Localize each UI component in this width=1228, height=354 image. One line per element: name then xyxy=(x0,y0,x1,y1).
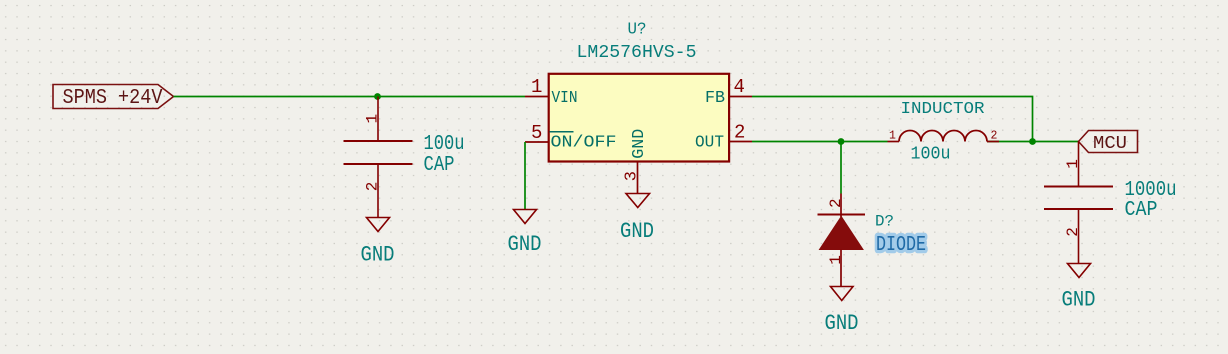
C2 bottom plate xyxy=(1044,208,1113,210)
wire FB net from pin 4 to output node xyxy=(752,97,1033,142)
svg-text:GND: GND xyxy=(825,311,859,336)
svg-text:INDUCTOR: INDUCTOR xyxy=(901,100,985,119)
svg-text:GND: GND xyxy=(630,129,649,159)
wire junction to diode xyxy=(840,142,842,194)
overbar of ON xyxy=(550,131,574,133)
pin 1 of C2 xyxy=(1078,142,1080,187)
capacitor C2 1000u output xyxy=(1044,142,1177,264)
pin 2 cathode lead of D? xyxy=(840,194,842,218)
svg-text:2: 2 xyxy=(734,122,745,144)
svg-text:U?: U? xyxy=(628,21,647,40)
cathode bar of D? xyxy=(818,214,866,216)
junction input cap node xyxy=(374,93,381,100)
svg-text:5: 5 xyxy=(531,122,542,144)
C1 bottom plate xyxy=(344,163,413,165)
svg-text:1: 1 xyxy=(1064,159,1082,169)
pin 2 of inductor xyxy=(987,141,999,143)
ground at C2 xyxy=(1062,264,1096,313)
svg-text:CAP: CAP xyxy=(424,153,455,177)
svg-text:100u: 100u xyxy=(911,145,951,165)
inductor winding arcs xyxy=(899,131,987,142)
wire pin 5 to ground xyxy=(524,142,526,210)
svg-text:ON/OFF: ON/OFF xyxy=(551,133,617,152)
svg-text:1: 1 xyxy=(827,255,845,265)
anode triangle of D? xyxy=(820,217,864,250)
global label SPMS +24V xyxy=(53,85,174,111)
regulator IC U? LM2576HVS-5 body xyxy=(549,21,729,162)
ground at pin 3 xyxy=(620,194,654,245)
C1 top plate xyxy=(344,140,413,142)
junction at diode node xyxy=(838,138,845,145)
junction at MCU node xyxy=(1029,138,1036,145)
svg-text:GND: GND xyxy=(508,232,542,257)
inductor L? 100u xyxy=(888,100,1000,165)
pin 1 of inductor xyxy=(888,141,900,143)
svg-text:LM2576HVS-5: LM2576HVS-5 xyxy=(577,43,697,63)
pin 1 anode lead of D? xyxy=(840,250,842,287)
pin 1 of C1 xyxy=(377,97,379,141)
C2 top plate xyxy=(1044,186,1113,188)
svg-text:CAP: CAP xyxy=(1125,198,1158,222)
svg-text:D?: D? xyxy=(875,213,894,231)
pin 2 of C1 xyxy=(377,164,379,218)
wire inductor to MCU node xyxy=(987,141,1079,143)
svg-text:1: 1 xyxy=(889,130,896,143)
capacitor C1 100u input xyxy=(344,97,465,218)
svg-text:GND: GND xyxy=(620,219,654,244)
wire input net to pin 1 VIN xyxy=(174,96,526,98)
svg-text:GND: GND xyxy=(1062,288,1096,313)
svg-text:3: 3 xyxy=(623,171,642,181)
pin 2 OUT of U? xyxy=(695,122,752,153)
svg-text:2: 2 xyxy=(827,198,845,208)
U? body rectangle xyxy=(549,74,729,162)
svg-text:SPMS +24V: SPMS +24V xyxy=(63,87,163,110)
wire OUT net from pin 2 xyxy=(752,141,888,143)
ground at pin 5 xyxy=(508,210,542,258)
svg-text:MCU: MCU xyxy=(1093,134,1127,154)
diode D? catch diode xyxy=(818,194,927,287)
pin 4 FB of U? xyxy=(705,76,752,108)
ground at diode xyxy=(825,287,859,337)
svg-text:4: 4 xyxy=(734,76,745,98)
pin 3 GND of U? xyxy=(623,129,650,194)
svg-text:1: 1 xyxy=(363,114,381,124)
ground at C1 xyxy=(361,218,395,268)
svg-text:FB: FB xyxy=(705,89,725,108)
pin 2 of C2 xyxy=(1078,209,1080,264)
svg-text:DIODE: DIODE xyxy=(876,234,926,257)
svg-text:1: 1 xyxy=(531,76,542,98)
svg-text:2: 2 xyxy=(991,130,998,143)
svg-text:GND: GND xyxy=(361,243,395,268)
global label MCU xyxy=(1079,131,1138,155)
svg-text:VIN: VIN xyxy=(552,89,578,108)
pin 5 ON/OFF of U? xyxy=(525,122,617,152)
svg-text:OUT: OUT xyxy=(695,133,724,152)
pin 1 VIN of U? xyxy=(525,76,578,108)
